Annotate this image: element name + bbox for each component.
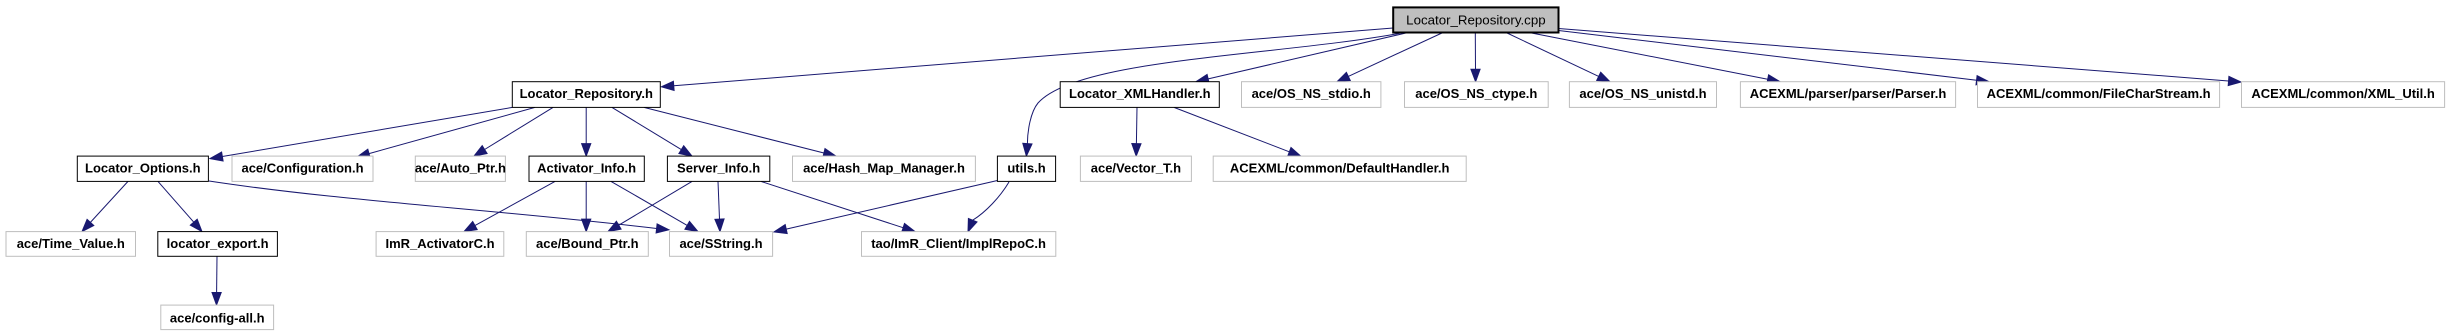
- svg-text:Locator_Repository.cpp: Locator_Repository.cpp: [1406, 12, 1545, 27]
- node tao/ImR_Client/ImplRepoC.h: [862, 232, 1056, 257]
- node ace/OS_NS_unistd.h: [1569, 82, 1716, 108]
- svg-text:Locator_XMLHandler.h: Locator_XMLHandler.h: [1069, 86, 1211, 101]
- node ace/Auto_Ptr.h: [415, 156, 506, 181]
- wire cpp->Locator_XMLHandler.h: [1196, 33, 1408, 84]
- svg-text:ace/SString.h: ace/SString.h: [679, 236, 762, 251]
- node ace/Configuration.h: [232, 156, 373, 181]
- svg-text:Locator_Options.h: Locator_Options.h: [85, 161, 201, 176]
- wire utils.h->tao/ImR_Client/ImplRepoC.h: [968, 182, 1009, 232]
- wire locator_export.h->ace/config-all.h: [212, 256, 221, 305]
- node ACEXML/parser/parser/Parser.h: [1740, 82, 1955, 108]
- svg-text:ace/config-all.h: ace/config-all.h: [170, 311, 265, 326]
- svg-text:ace/Vector_T.h: ace/Vector_T.h: [1091, 161, 1181, 176]
- node ace/OS_NS_stdio.h: [1242, 82, 1381, 108]
- svg-text:ImR_ActivatorC.h: ImR_ActivatorC.h: [385, 236, 494, 251]
- wire Server_Info.h->ace/SString.h: [715, 181, 724, 231]
- node Locator_Repository.h: [512, 82, 660, 108]
- wire Locator_Repository.h->Locator_Options.h: [210, 107, 512, 161]
- node Locator_XMLHandler.h: [1060, 82, 1219, 108]
- svg-text:ace/Configuration.h: ace/Configuration.h: [241, 161, 363, 176]
- wire cpp->ACEXML/common/FileCharStream.h: [1559, 31, 1990, 85]
- node ace/SString.h: [670, 232, 773, 257]
- svg-text:Server_Info.h: Server_Info.h: [677, 161, 760, 176]
- wire Activator_Info.h->ace/Bound_Ptr.h: [582, 181, 591, 231]
- wire utils.h->ace/SString.h: [774, 181, 997, 234]
- wire Locator_Options.h->ace/SString.h: [209, 181, 669, 233]
- node ace/Vector_T.h: [1080, 156, 1191, 181]
- wire Locator_Repository.h->Server_Info.h: [612, 107, 692, 156]
- node ace/OS_NS_ctype.h: [1405, 82, 1549, 108]
- svg-text:ACEXML/common/XML_Util.h: ACEXML/common/XML_Util.h: [2251, 86, 2435, 101]
- wire cpp->ace/OS_NS_unistd.h: [1506, 33, 1610, 82]
- wire Locator_Repository.h->ace/Hash_Map_Manager.h: [644, 107, 836, 157]
- wire Locator_Options.h->locator_export.h: [158, 181, 202, 231]
- svg-text:ace/OS_NS_stdio.h: ace/OS_NS_stdio.h: [1252, 86, 1371, 101]
- wire cpp->Locator_Repository.h: [661, 28, 1393, 90]
- node ACEXML/common/XML_Util.h: [2242, 82, 2445, 108]
- svg-text:ace/Hash_Map_Manager.h: ace/Hash_Map_Manager.h: [803, 161, 965, 176]
- svg-text:ace/OS_NS_ctype.h: ace/OS_NS_ctype.h: [1415, 86, 1537, 101]
- svg-text:locator_export.h: locator_export.h: [167, 236, 269, 251]
- svg-text:ace/Auto_Ptr.h: ace/Auto_Ptr.h: [415, 161, 506, 176]
- node Locator_Options.h: [77, 156, 208, 181]
- svg-text:ACEXML/common/FileCharStream.h: ACEXML/common/FileCharStream.h: [1987, 86, 2211, 101]
- node locator_export.h: [158, 232, 278, 257]
- node ACEXML/common/DefaultHandler.h: [1213, 156, 1466, 181]
- svg-text:Locator_Repository.h: Locator_Repository.h: [520, 86, 653, 101]
- wire cpp->ace/OS_NS_stdio.h: [1337, 33, 1443, 82]
- wire cpp->ACEXML/parser/parser/Parser.h: [1529, 33, 1780, 84]
- svg-text:Activator_Info.h: Activator_Info.h: [537, 161, 636, 176]
- wire Locator_Repository.h->Activator_Info.h: [582, 107, 591, 156]
- node ace/config-all.h: [161, 305, 274, 330]
- node Activator_Info.h: [529, 156, 644, 181]
- svg-text:utils.h: utils.h: [1007, 161, 1045, 176]
- node ace/Time_Value.h: [6, 232, 136, 257]
- svg-text:tao/ImR_Client/ImplRepoC.h: tao/ImR_Client/ImplRepoC.h: [871, 236, 1046, 251]
- wire Server_Info.h->ace/Bound_Ptr.h: [608, 181, 692, 231]
- node ACEXML/common/FileCharStream.h: [1978, 82, 2220, 108]
- wire cpp->ACEXML/common/XML_Util.h: [1559, 29, 2242, 86]
- wire cpp->utils.h: [1023, 33, 1404, 157]
- svg-text:ace/OS_NS_unistd.h: ace/OS_NS_unistd.h: [1579, 86, 1706, 101]
- node ace/Hash_Map_Manager.h: [793, 156, 976, 181]
- node utils.h: [997, 156, 1055, 181]
- wire Server_Info.h->tao/ImR_Client/ImplRepoC.h: [761, 181, 915, 232]
- node Locator_Repository.cpp: [1393, 7, 1558, 32]
- wire Locator_Repository.h->ace/Configuration.h: [357, 107, 535, 158]
- wire Locator_Repository.h->ace/Auto_Ptr.h: [474, 107, 553, 156]
- svg-text:ACEXML/common/DefaultHandler.h: ACEXML/common/DefaultHandler.h: [1230, 161, 1450, 176]
- wire Activator_Info.h->ace/SString.h: [611, 181, 698, 231]
- svg-text:ace/Bound_Ptr.h: ace/Bound_Ptr.h: [536, 236, 639, 251]
- node ImR_ActivatorC.h: [376, 232, 504, 257]
- svg-text:ACEXML/parser/parser/Parser.h: ACEXML/parser/parser/Parser.h: [1750, 86, 1947, 101]
- wire Activator_Info.h->ImR_ActivatorC.h: [464, 181, 555, 231]
- wire Locator_XMLHandler.h->ace/Vector_T.h: [1132, 107, 1141, 156]
- wire cpp->ace/OS_NS_ctype.h: [1471, 33, 1480, 82]
- node ace/Bound_Ptr.h: [526, 232, 648, 257]
- wire Locator_Options.h->ace/Time_Value.h: [82, 181, 128, 231]
- wire Locator_XMLHandler.h->ACEXML/common/DefaultHandler.h: [1174, 107, 1301, 156]
- svg-text:ace/Time_Value.h: ace/Time_Value.h: [17, 236, 125, 251]
- node Server_Info.h: [667, 156, 769, 181]
